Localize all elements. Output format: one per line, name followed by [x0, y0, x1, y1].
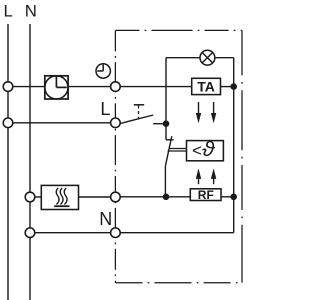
- wire L rail: [7, 24, 9, 300]
- wire row4 N line: [30, 232, 234, 234]
- switch S1 blade: [120, 115, 153, 124]
- thermostat contact stub: [165, 124, 167, 140]
- mechanical linkage upper line: [169, 148, 187, 150]
- wire row1 inside device to TA: [115, 86, 191, 88]
- up arrow 1 (below thermostat box): [196, 168, 201, 184]
- wire right bus: [233, 58, 235, 233]
- mechanical linkage lower line: [168, 150, 187, 152]
- switch S1 fixed contact stub: [153, 123, 166, 125]
- wire lamp branch vertical: [165, 58, 167, 124]
- terminal circle N row3: [25, 192, 35, 202]
- terminal circle device row3: [111, 192, 121, 202]
- thermostat contact blade: [165, 136, 171, 197]
- terminal circle L row2: [3, 118, 13, 128]
- wire N rail: [29, 24, 31, 300]
- time switch U1 (square with clock): [45, 76, 68, 99]
- terminal circle N row4: [25, 228, 35, 238]
- wire TA to right bus: [221, 86, 234, 88]
- svg-text:N: N: [99, 209, 112, 229]
- svg-text:L: L: [4, 2, 13, 21]
- lamp (circle with X): [200, 50, 215, 65]
- wire lamp branch horizontal: [166, 57, 234, 59]
- svg-text:RF: RF: [198, 188, 214, 202]
- down arrow 1 (above thermostat box): [196, 102, 201, 123]
- switch S1 manual actuator dashed stem: [138, 105, 140, 119]
- thermostat contact fixed end: [166, 139, 174, 141]
- terminal circle L row1: [3, 82, 13, 92]
- svg-text:N: N: [25, 2, 37, 21]
- junction dot (switch output): [163, 120, 170, 127]
- terminal circle device row1: [111, 82, 121, 92]
- device boundary right edge (dash-dot): [241, 30, 243, 282]
- heater (floor heating element): [41, 185, 78, 209]
- clock symbol (timer input label): [96, 64, 110, 78]
- device boundary left edge (dash-dot): [114, 30, 116, 282]
- switch S1 manual actuator T-bar: [134, 104, 144, 106]
- svg-text:TA: TA: [197, 79, 215, 95]
- RF box: [190, 188, 221, 202]
- svg-text:L: L: [100, 99, 110, 119]
- thermostat box (less-than-theta): [187, 139, 224, 161]
- down arrow 2 (above thermostat box): [211, 102, 216, 123]
- wire row3 inside device (RF line): [115, 196, 233, 198]
- svg-text:<ϑ: <ϑ: [192, 139, 216, 161]
- wire row2 L to switch: [8, 122, 121, 124]
- device boundary bottom edge (dash-dot): [115, 282, 242, 284]
- device boundary top edge (dash-dot): [115, 29, 242, 31]
- wire heater to terminal: [79, 196, 116, 198]
- up arrow 2 (below thermostat box): [211, 168, 216, 184]
- junction dot (TA to bus): [230, 83, 237, 90]
- terminal circle device row2: [111, 118, 121, 128]
- wire row1 L to timer to terminal: [8, 86, 115, 88]
- wire row3 N to heater: [30, 196, 41, 198]
- terminal circle device row4: [111, 228, 121, 238]
- junction dot (RF line left): [163, 194, 170, 201]
- junction dot (RF to bus): [230, 194, 237, 201]
- TA box: [192, 78, 221, 94]
